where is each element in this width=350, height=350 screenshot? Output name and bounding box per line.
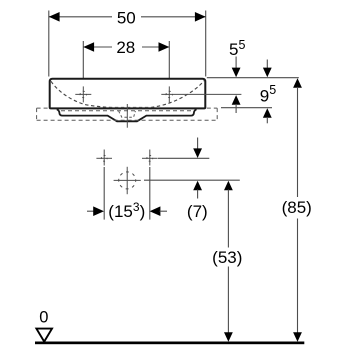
- drain boss hidden outline: [119, 111, 136, 117]
- dimension 5.5: lower arrow stem: [235, 104, 237, 113]
- reference line basin bottom edge: [221, 107, 272, 109]
- dimension 28: right arrowhead: [159, 42, 170, 52]
- zero level datum triangle: [36, 329, 52, 342]
- svg-text:(53): (53): [212, 248, 242, 267]
- dimension 28: left arrowhead: [83, 42, 94, 52]
- dimension (53): lower arrowhead: [224, 332, 233, 342]
- mounting hole right extension line: [149, 167, 151, 220]
- dimension (53): upper arrowhead: [224, 181, 233, 191]
- mounting hole left centermark: [96, 150, 112, 166]
- reference line mounting holes: [158, 157, 209, 159]
- dimension 5.5: upper arrowhead: [232, 68, 241, 78]
- dimension 9.5: upper arrow stem: [266, 60, 268, 70]
- skirt hidden edge line: [61, 110, 193, 112]
- dimension (15.3): right arrowhead: [150, 206, 161, 216]
- svg-text:(153): (153): [108, 200, 145, 221]
- tap hole left centermark: [75, 86, 91, 102]
- dimension 28: dimension line: [83, 46, 169, 48]
- dimension 50: right arrowhead: [195, 12, 206, 22]
- dimension (15.3): left arrowhead: [93, 206, 104, 216]
- svg-text:0: 0: [39, 309, 48, 327]
- hidden installation outline rectangle: [37, 108, 218, 120]
- dimension (85): lower arrowhead: [293, 332, 302, 342]
- drain outlet hidden circle: [114, 167, 141, 194]
- basin skirt / underside profile: [57, 109, 197, 121]
- dimension (7): lower arrow stem: [197, 190, 199, 199]
- dimension 50: dimension line: [49, 16, 206, 18]
- dimension 5.5: upper arrow stem: [235, 57, 237, 70]
- dimension (7): upper arrowhead: [193, 148, 202, 158]
- dimension 50: left arrowhead: [49, 12, 60, 22]
- washbasin body outline (front view): [50, 79, 206, 109]
- svg-text:(7): (7): [187, 202, 208, 221]
- floor line: [35, 342, 304, 345]
- tap hole right centermark: [161, 86, 241, 102]
- dimension 28: right extension line: [168, 41, 170, 88]
- dimension 50: left extension line: [48, 11, 50, 77]
- dimension 28: left extension line: [82, 41, 84, 88]
- dimension (7): lower arrowhead: [193, 181, 202, 191]
- svg-text:28: 28: [116, 38, 135, 57]
- dimension 9.5: upper arrowhead: [263, 68, 272, 78]
- svg-text:(85): (85): [282, 198, 312, 217]
- dimension (85): upper arrowhead: [293, 78, 302, 88]
- dimension 5.5: lower arrowhead: [232, 95, 241, 105]
- dimension (53): upper line segment: [227, 190, 229, 248]
- dimension (85): upper line segment: [297, 87, 299, 197]
- washbasin inner bowl hidden contour: [51, 81, 204, 108]
- reference line basin top edge: [207, 77, 299, 79]
- drain centerline: [126, 104, 128, 128]
- dimension (85): lower line segment: [297, 219, 299, 334]
- dimension (53): lower line segment: [227, 267, 229, 334]
- dimension (7): upper arrow stem: [197, 138, 199, 150]
- svg-text:50: 50: [117, 9, 136, 28]
- dimension 9.5: lower arrow stem: [266, 117, 268, 123]
- mounting hole right centermark: [142, 150, 158, 166]
- dimension (15.3): left tail line: [87, 210, 95, 212]
- dimension 50: right extension line: [205, 11, 207, 77]
- mounting hole left extension line: [103, 167, 105, 220]
- dimension (15.3): right tail line: [160, 210, 168, 212]
- dimension 9.5: lower arrowhead: [263, 108, 272, 118]
- reference line drain outlet: [144, 179, 240, 181]
